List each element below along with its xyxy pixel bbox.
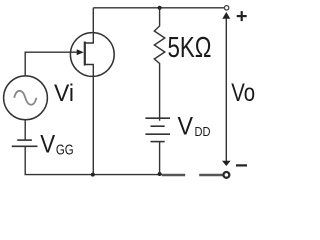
wire gate lead — [25, 52, 70, 76]
junction VDD-bottom — [158, 172, 162, 176]
minus sign — [236, 164, 247, 166]
terminal top — [224, 6, 228, 10]
junction source-bottom — [91, 173, 95, 177]
wire VGG to bottom rail — [25, 146, 162, 174]
battery VGG — [17, 139, 32, 141]
wire source lead — [85, 65, 94, 175]
resistor R1 5K — [154, 8, 165, 118]
svg-text:GG: GG — [56, 141, 74, 158]
battery VDD — [145, 117, 170, 119]
wire bottom dash 1 — [162, 174, 185, 176]
transistor Q1 — [70, 33, 114, 77]
svg-text:Vo: Vo — [231, 79, 255, 107]
wire Vi to VGG — [24, 120, 26, 140]
svg-text:V: V — [178, 113, 194, 141]
junction top rail-resistor — [158, 6, 162, 10]
terminal bottom — [224, 172, 230, 178]
source Vi — [4, 76, 48, 120]
svg-text:Vi: Vi — [54, 80, 74, 107]
svg-text:DD: DD — [195, 124, 211, 139]
svg-text:V: V — [40, 131, 55, 159]
Vo measure line — [225, 16, 227, 163]
wire drain lead — [85, 8, 94, 43]
svg-text:5KΩ: 5KΩ — [168, 32, 212, 64]
plus sign — [237, 15, 247, 17]
wire VDD leads — [159, 118, 161, 174]
wire bottom dash 2 — [199, 174, 223, 176]
wire top rail — [93, 7, 224, 9]
